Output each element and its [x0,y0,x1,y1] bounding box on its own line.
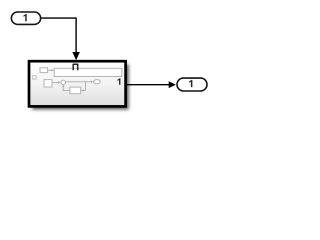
preview: source block A [40,68,48,73]
preview: wire G back up into sum E [63,87,70,91]
wire In1 to subsystem [41,18,76,52]
subsystem block [29,61,126,106]
arrowhead into subsystem top [72,52,80,60]
preview: block G [70,87,81,94]
wire subsystem to Out1 [127,84,170,86]
preview: sum circle E [61,80,65,85]
outport Out1 [177,78,207,91]
preview: tiny inport square C [33,76,36,79]
preview: feedback tap down from wire into G [83,82,85,91]
preview: wire A to B [48,69,52,71]
preview: block D [44,80,52,87]
arrowhead into Out1 [169,81,176,88]
preview: long block B [54,68,122,76]
preview: port label 1 [117,78,120,84]
subsystem shadow [32,64,129,109]
preview: wire D to sum E [52,82,58,84]
preview: outport oval F [94,80,101,84]
inport In1 [11,12,40,24]
preview: wire E to oval F [66,81,92,83]
preview: pulse icon on B [73,64,78,70]
